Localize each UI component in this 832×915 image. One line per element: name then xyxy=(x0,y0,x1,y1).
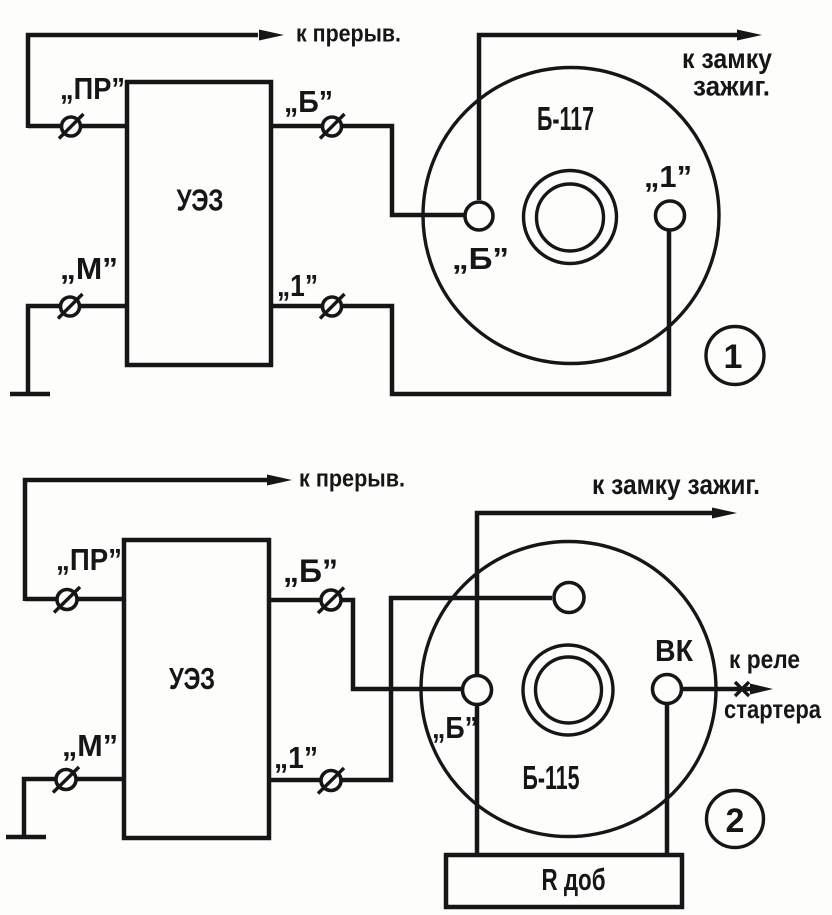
wire: left loop from terminal ПР up to breaker arrow xyxy=(25,480,268,601)
svg-text:„ПР”: „ПР” xyxy=(56,542,122,577)
svg-text:„М”: „М” xyxy=(62,728,118,763)
coil terminal 1 (circle) xyxy=(656,201,685,230)
wire: coil Б down to ballast resistor xyxy=(475,705,480,856)
svg-text:ВК: ВК xyxy=(655,633,693,668)
terminal Б (slashed circle) xyxy=(320,114,345,139)
terminal Б (slashed circle) xyxy=(318,588,344,614)
wire: М input to unit U2 xyxy=(24,779,124,835)
pin label „ПР” xyxy=(60,71,125,106)
svg-text:к замку: к замку xyxy=(682,43,772,74)
wire: Б output of U2 to coil Б terminal xyxy=(269,600,462,689)
pin label „Б” of coil xyxy=(432,710,478,745)
net label line 2 xyxy=(693,71,770,102)
terminal М (slashed circle) xyxy=(58,294,83,319)
coil terminal Б (circle) xyxy=(465,202,493,230)
svg-text:„ПР”: „ПР” xyxy=(60,71,125,106)
svg-text:к реле: к реле xyxy=(729,644,800,674)
wire: ВК to starter relay xyxy=(682,687,753,692)
pin label „1” of coil xyxy=(644,159,692,194)
coil HV tower rings xyxy=(524,171,617,264)
wire: left loop from terminal ПР up to breaker arrow xyxy=(28,35,258,128)
arrowhead to breaker xyxy=(267,475,292,486)
svg-text:УЭЗ: УЭЗ xyxy=(169,661,215,696)
pin label „М” xyxy=(60,251,118,286)
coil top terminal (circle) xyxy=(554,583,584,613)
terminal 1 (slashed circle) xyxy=(320,294,345,319)
ground xyxy=(10,392,50,397)
wire: ignition switch feed down to coil Б xyxy=(477,513,712,674)
coil HV tower rings xyxy=(523,645,613,735)
coil terminal ВК (circle) xyxy=(653,675,682,704)
svg-text:„Б”: „Б” xyxy=(432,710,478,745)
arrowhead to ignition lock xyxy=(712,508,737,519)
svg-text:„1”: „1” xyxy=(277,268,318,303)
svg-text:к прерыв.: к прерыв. xyxy=(296,21,401,48)
terminal ПР (slashed circle) xyxy=(59,114,84,139)
wire: М input to unit U1 xyxy=(28,306,127,392)
pin label „М” xyxy=(62,728,118,763)
svg-text:1: 1 xyxy=(724,338,743,376)
svg-text:„Б”: „Б” xyxy=(284,84,333,119)
wire: ПР input to unit U1 xyxy=(28,124,127,129)
ground xyxy=(6,835,46,840)
pin label „Б” of coil xyxy=(452,241,509,276)
callout 2 (circled number) xyxy=(707,791,764,848)
svg-text:„1”: „1” xyxy=(644,159,692,194)
wire: ПР input to unit U2 xyxy=(25,597,124,602)
electronic ignition unit U2: УЭЗ box xyxy=(124,540,269,838)
terminal 1 (slashed circle) xyxy=(318,768,344,794)
svg-text:„Б”: „Б” xyxy=(452,241,509,276)
svg-text:УЭЗ: УЭЗ xyxy=(177,183,224,218)
break mark X on starter wire xyxy=(735,682,749,696)
pin label ВК xyxy=(655,633,693,668)
coil terminal Б (circle) xyxy=(463,676,492,705)
ignition coil T1: Б-117 body circle xyxy=(423,68,719,364)
svg-text:„1”: „1” xyxy=(274,740,318,775)
pin label „1” xyxy=(277,268,318,303)
callout 1 (circled number) xyxy=(706,327,764,385)
svg-text:„Б”: „Б” xyxy=(283,553,338,589)
value label Б-115 xyxy=(523,759,580,796)
electronic ignition unit U1: УЭЗ box xyxy=(127,82,271,365)
svg-text:Б-115: Б-115 xyxy=(523,759,580,796)
svg-text:к замку зажиг.: к замку зажиг. xyxy=(592,469,760,500)
svg-text:к прерыв.: к прерыв. xyxy=(299,466,405,493)
arrowhead to breaker xyxy=(259,30,284,41)
arrowhead to starter relay xyxy=(750,684,773,695)
net label: к реле (to starter relay), line 1 xyxy=(729,644,800,674)
ignition coil T2: Б-115 body circle xyxy=(421,542,716,837)
wire: Б output of U1 to coil Б terminal xyxy=(271,126,464,215)
net label: к замку зажиг. (to ignition lock), line 1 xyxy=(682,43,772,74)
svg-text:2: 2 xyxy=(726,802,745,840)
pin label „1” xyxy=(274,740,318,775)
terminal М (slashed circle) xyxy=(53,767,79,793)
net label: к замку зажиг. xyxy=(592,469,760,500)
pin label „Б” xyxy=(283,553,338,589)
net label: к прерыв. xyxy=(299,466,405,493)
svg-text:Б-117: Б-117 xyxy=(537,100,594,137)
pin label „Б” xyxy=(284,84,333,119)
wire: 1 output of U1 to coil terminal 1 xyxy=(271,230,669,394)
pin label „ПР” xyxy=(56,542,122,577)
wire: ВК down to ballast resistor xyxy=(665,704,670,856)
wire: 1 output of U2 to coil top terminal xyxy=(269,598,552,780)
terminal ПР (slashed circle) xyxy=(54,587,80,613)
svg-text:R доб: R доб xyxy=(542,862,606,897)
svg-text:стартера: стартера xyxy=(724,694,821,724)
ballast resistor R доб box xyxy=(446,855,682,907)
svg-text:зажиг.: зажиг. xyxy=(693,71,770,102)
value label Б-117 xyxy=(537,100,594,137)
wire: ignition switch feed to coil Б xyxy=(479,35,740,200)
svg-text:„М”: „М” xyxy=(60,251,118,286)
net label line 2: стартера xyxy=(724,694,821,724)
net label: к прерыв. (to breaker) xyxy=(296,21,401,48)
arrowhead to ignition lock xyxy=(737,30,762,41)
